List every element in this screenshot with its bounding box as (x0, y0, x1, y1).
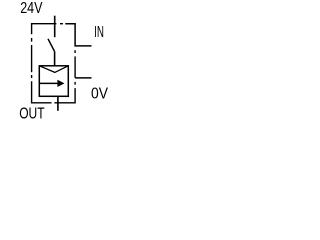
enclosure top dot (60, 23, 63, 25)
wire switch to relay box (54, 51, 56, 65)
enclosure right dot lower (74, 82, 76, 85)
svg-text:0V: 0V (91, 86, 109, 103)
arrowhead (58, 80, 64, 86)
relay box U1 outline (39, 66, 68, 97)
enclosure left dot upper (31, 38, 33, 42)
wire IN (corner from enclosure top-right) (65, 24, 91, 46)
arrow shaft (output direction) (40, 82, 60, 84)
switch S1 (N.O. contact blade) (48, 39, 55, 52)
svg-text:24V: 24V (20, 0, 43, 17)
enclosure right dash middle (74, 56, 76, 77)
enclosure left dot lower (31, 75, 33, 78)
enclosure left long dash (31, 45, 33, 72)
wire OUT (57, 96, 59, 111)
wire 0V (75, 77, 91, 79)
envelope flap of relay symbol (39, 66, 68, 73)
enclosure bottom-left corner run (32, 81, 52, 103)
enclosure dash-dot boundary (32, 24, 76, 103)
svg-text:IN: IN (94, 24, 104, 41)
wire 24V supply drop (54, 16, 56, 38)
svg-text:OUT: OUT (19, 106, 45, 123)
enclosure bottom-right corner run (54, 88, 75, 103)
enclosure right dot upper (74, 50, 76, 53)
enclosure top-left corner run (32, 24, 57, 35)
